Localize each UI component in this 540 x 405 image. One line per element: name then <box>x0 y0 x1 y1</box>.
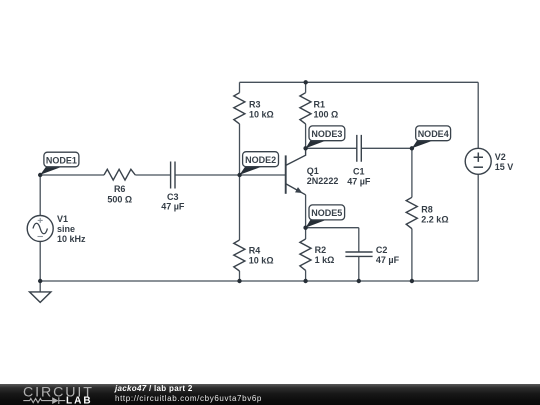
svg-text:47 µF: 47 µF <box>161 202 185 212</box>
transistor Q1 <box>286 148 306 195</box>
node A callout NODE1 <box>40 152 79 175</box>
node dot R8 bottom <box>410 279 414 283</box>
svg-text:10 kΩ: 10 kΩ <box>249 109 274 119</box>
source V2 minus sign <box>474 166 483 168</box>
capacitor C2 plates <box>345 252 372 256</box>
wire: ground stem <box>39 281 41 292</box>
svg-text:NODE5: NODE5 <box>311 208 342 218</box>
node dot R2 bottom <box>303 279 307 283</box>
svg-text:R1: R1 <box>314 99 326 109</box>
resistor R8 <box>406 197 417 228</box>
node dot ground junction <box>38 279 42 283</box>
node dot NODE1 <box>38 173 42 177</box>
node D callout NODE4 <box>412 126 451 148</box>
wire: NODE2 down to R4 <box>239 175 241 240</box>
wire: R6 to C3 left plate <box>135 174 170 176</box>
svg-text:15 V: 15 V <box>495 162 514 172</box>
capacitor C1 plates <box>357 135 362 162</box>
resistor R6 <box>104 169 135 180</box>
svg-text:2.2 kΩ: 2.2 kΩ <box>421 214 448 224</box>
resistor R2 <box>300 239 311 270</box>
svg-text:2N2222: 2N2222 <box>307 176 339 186</box>
source V2 circle <box>465 148 491 174</box>
node dot NODE3 <box>303 146 307 150</box>
svg-text:47 µF: 47 µF <box>376 255 400 265</box>
wire: C3 right plate to NODE2 <box>175 174 240 176</box>
wire: NODE3 to C1 left plate <box>306 147 357 149</box>
wire: C1 right plate to NODE4 <box>361 147 412 149</box>
node dot C2 bottom <box>357 279 361 283</box>
svg-text:R4: R4 <box>249 246 261 256</box>
svg-text:10 kΩ: 10 kΩ <box>249 256 274 266</box>
node B callout NODE2 <box>240 152 279 175</box>
wire: Q1 emitter lead down to NODE5 <box>305 195 307 228</box>
svg-text:NODE2: NODE2 <box>245 155 276 165</box>
wire: NODE1 down to V1 top <box>39 175 41 216</box>
resistor R4 <box>234 240 245 271</box>
wire: NODE2 to Q1 base <box>240 174 286 176</box>
svg-text:C3: C3 <box>167 192 179 202</box>
node E callout NODE5 <box>306 205 345 228</box>
wire: top supply rail y=82.3 <box>240 81 479 83</box>
wire: R1 bottom lead to NODE3 <box>305 124 307 148</box>
wire: R2 bottom to rail <box>305 270 307 281</box>
source V1 circle <box>27 216 53 242</box>
wire: R4 bottom to rail <box>239 271 241 281</box>
svg-text:C1: C1 <box>353 166 365 176</box>
svg-text:100 Ω: 100 Ω <box>314 109 339 119</box>
node dot NODE5 <box>303 226 307 230</box>
svg-text:1 kΩ: 1 kΩ <box>315 255 335 265</box>
wire: V2 bottom lead up from rail <box>477 174 479 281</box>
wire: R1 top lead <box>305 82 307 92</box>
wire: NODE4 down to R8 <box>411 148 413 197</box>
svg-text:Q1: Q1 <box>307 166 319 176</box>
ground symbol <box>30 292 51 303</box>
CircuitLab logo <box>10 384 110 405</box>
wire: V2 top lead to top rail <box>477 82 479 148</box>
node dot R4 bottom <box>237 279 241 283</box>
svg-text:R3: R3 <box>249 99 261 109</box>
svg-text:V1: V1 <box>57 214 68 224</box>
source V1 plus sign <box>38 218 43 223</box>
source V1 minus sign <box>38 236 43 238</box>
node dot top rail R1 <box>304 80 308 84</box>
svg-text:10 kHz: 10 kHz <box>57 234 86 244</box>
wire: NODE5 to R2 <box>305 228 307 239</box>
svg-text:NODE3: NODE3 <box>311 129 342 139</box>
svg-text:R6: R6 <box>114 184 126 194</box>
svg-text:NODE1: NODE1 <box>46 155 77 165</box>
svg-text:R8: R8 <box>421 204 433 214</box>
footer title text <box>115 384 193 393</box>
resistor R1 <box>300 93 311 124</box>
wire: NODE5 right to C2 branch <box>306 227 359 229</box>
wire: V1 bottom to ground rail <box>39 242 41 282</box>
svg-text:V2: V2 <box>495 152 506 162</box>
wire: R3 top lead <box>239 82 241 92</box>
wire: C2 top lead <box>358 228 360 252</box>
resistor R3 <box>234 93 245 124</box>
footer bar <box>0 384 540 405</box>
wire: bottom ground rail <box>40 280 478 282</box>
svg-text:NODE4: NODE4 <box>418 129 449 139</box>
svg-text:LAB: LAB <box>66 396 93 405</box>
node dot NODE4 <box>410 146 414 150</box>
footer url text <box>115 394 262 403</box>
source V2 plus sign <box>474 153 483 162</box>
capacitor C3 plates <box>171 162 175 189</box>
svg-text:C2: C2 <box>376 245 388 255</box>
transistor Q1 emitter arrow <box>295 187 302 193</box>
svg-text:47 µF: 47 µF <box>347 176 371 186</box>
svg-text:sine: sine <box>57 224 75 234</box>
node C callout NODE3 <box>306 126 345 148</box>
svg-text:500 Ω: 500 Ω <box>107 194 132 204</box>
wire: main signal rail y=175 NODE1 to R6 <box>40 174 104 176</box>
source V1 sine squiggle <box>33 223 47 234</box>
svg-text:R2: R2 <box>315 245 327 255</box>
wire: C2 bottom lead to rail <box>358 256 360 281</box>
node dot NODE2 <box>237 173 241 177</box>
node junction dots <box>38 80 414 283</box>
wire: R3 bottom lead to NODE2 <box>239 124 241 175</box>
wire: R8 bottom to rail <box>411 229 413 281</box>
